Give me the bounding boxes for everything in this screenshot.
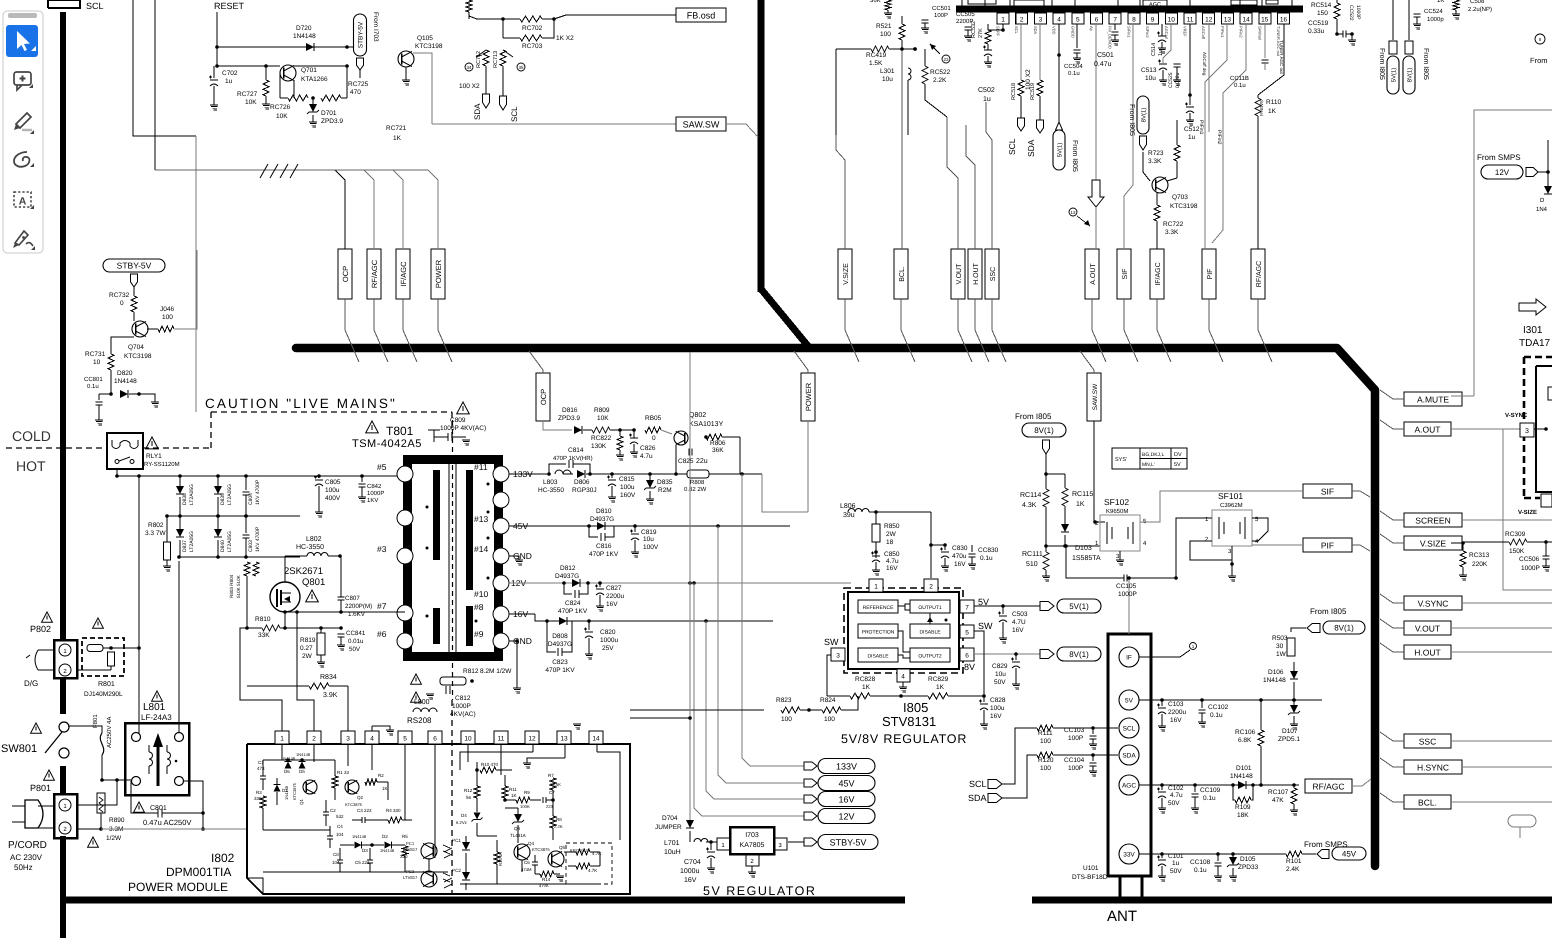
svg-text:1000P: 1000P [1521,565,1540,572]
wire pin16 tuner agc [1258,24,1284,95]
svg-text:6: 6 [1095,17,1099,24]
label SDA flag [968,793,1002,803]
svg-text:150: 150 [1317,10,1328,17]
svg-text:C842: C842 [367,483,382,490]
svg-text:12V: 12V [1495,168,1510,177]
svg-text:V.SIZE: V.SIZE [843,263,850,285]
wire l801 in [77,778,132,805]
svg-text:D6: D6 [284,769,290,774]
svg-text:IF/AGC: IF/AGC [399,261,408,287]
wire Q701 collector [294,65,347,67]
wire bus to OCP lower [529,351,543,373]
svg-text:H.OUT: H.OUT [1414,647,1440,657]
svg-text:TSM-4042A5: TSM-4042A5 [352,438,422,450]
svg-text:474M: 474M [521,867,532,872]
wire ocp to d816 [556,429,572,431]
svg-text:CC830: CC830 [978,547,999,554]
resistor RC115 [1062,488,1093,525]
svg-text:#14: #14 [474,544,488,554]
svg-text:KSA1013Y: KSA1013Y [689,421,724,428]
resistors R803 R804 [229,557,277,628]
transformer pin right mid [493,492,509,508]
diode D838 [176,476,195,516]
wire V.OUT right [1451,627,1552,629]
svg-text:1N4: 1N4 [1536,206,1548,213]
svg-text:10K: 10K [276,113,288,120]
capacitor C825 [676,437,708,465]
sys table [1112,448,1187,469]
resistor R1 [332,760,350,800]
transformer pin #11 [474,462,533,482]
svg-text:18: 18 [886,539,894,546]
capacitor CC505 [956,11,975,41]
svg-text:SCREEN: SCREEN [1415,515,1450,525]
pin6 stub wire [370,640,397,642]
resistor R12 [464,770,480,812]
svg-text:TDA17: TDA17 [1519,338,1551,349]
wire 133V rail2 [612,472,678,476]
svg-text:Q2: Q2 [357,795,364,800]
svg-text:CC524: CC524 [1424,8,1443,15]
capacitor C2 [323,800,344,826]
pin 12 of I201 [1201,13,1215,40]
svg-text:R14: R14 [542,877,551,882]
svg-text:From SMPS: From SMPS [1304,840,1348,849]
svg-text:DV: DV [1174,452,1182,458]
pin 1 of I201 [996,13,1010,37]
svg-text:18K: 18K [1237,812,1249,819]
svg-text:IF/AGC: IF/AGC [1154,262,1162,285]
svg-text:0: 0 [120,300,124,307]
svg-text:I802: I802 [211,851,235,865]
wire stby [347,46,353,48]
svg-text:C702: C702 [222,70,238,77]
svg-text:14: 14 [592,736,600,743]
svg-text:3: 3 [346,736,350,743]
pin 10 of I201 [1164,13,1178,40]
svg-text:470P 1KV(HR): 470P 1KV(HR) [553,455,593,462]
svg-text:4: 4 [901,674,905,681]
net label IF/AGC (upper row) [1150,249,1164,299]
svg-text:1.5K: 1.5K [869,60,883,67]
svg-text:C803: C803 [248,540,254,552]
capacitor C513 [1141,60,1167,85]
svg-text:A: A [19,196,27,208]
dashed isolation line [6,412,452,448]
wire pin13 pif1 [1198,24,1227,249]
wire H.SYNC right [1462,766,1552,768]
stadium small bottom right [1508,815,1536,827]
svg-text:8: 8 [1132,17,1136,24]
toolbar highlight/draw tool [14,113,34,134]
svg-text:SDA: SDA [1026,139,1036,157]
wire pin11 vref [1188,24,1192,97]
svg-text:1000u: 1000u [600,637,618,644]
svg-text:100u: 100u [620,484,635,491]
svg-text:D101: D101 [1236,765,1252,772]
label I802 power module [128,851,235,894]
svg-text:C513: C513 [1141,67,1157,74]
capacitor C804 [243,476,262,516]
wire OCP to bus [345,299,359,362]
svg-text:R11: R11 [509,787,517,792]
capacitor CC11B [1230,24,1269,116]
svg-text:KTA1266: KTA1266 [301,76,328,83]
wire bus to A.OUT [1380,420,1404,429]
svg-text:PC2: PC2 [406,869,415,874]
component R801 (degauss) [82,638,124,698]
svg-text:R9: R9 [524,790,530,795]
transistor Q802 [674,412,724,445]
svg-text:C815: C815 [619,476,635,483]
wire PIF to bus [1209,299,1223,362]
svg-text:1N4148: 1N4148 [284,785,289,800]
svg-text:#5: #5 [377,462,387,472]
svg-text:TUNER AGC out: TUNER AGC out [1279,40,1284,75]
resistor RC727 [237,64,270,109]
net label RF/AGC (upper row) [367,249,381,299]
svg-text:C819: C819 [641,529,657,536]
zener D105 [1227,854,1259,881]
capacitor C4 [327,824,344,848]
svg-text:50V: 50V [349,646,361,653]
svg-text:LT2A05G: LT2A05G [189,484,195,505]
svg-text:45V: 45V [838,778,854,788]
svg-text:PIFin2: PIFin2 [1239,26,1244,38]
label 2SK2671 [284,566,325,588]
svg-text:220K: 220K [1472,561,1488,568]
diode D704 [655,716,694,842]
svg-text:C501: C501 [1097,52,1114,59]
svg-text:V-SIZE: V-SIZE [1518,509,1537,516]
svg-text:3: 3 [1525,428,1529,435]
block PROTECTION [858,624,898,638]
resistor RC111 [1022,546,1050,581]
svg-text:AGCoff: AGCoff [1201,26,1206,40]
wire sf101 pin5 loop [1252,518,1268,541]
svg-text:16V: 16V [838,794,854,804]
svg-text:DISABLE: DISABLE [867,654,889,660]
svg-text:4.7u: 4.7u [640,453,653,460]
resistor R101 [1286,851,1316,873]
net label SCREEN [1404,513,1462,527]
diode D808 [548,617,572,648]
module pin 4 [365,731,379,744]
svg-text:4.7K: 4.7K [588,868,597,873]
svg-text:100: 100 [781,716,792,723]
svg-text:R7: R7 [548,773,554,778]
resistor RC309 [1463,531,1552,555]
svg-text:R3: R3 [256,790,262,795]
svg-text:Q3: Q3 [514,826,521,831]
pin 7 of I201 [1108,13,1122,49]
svg-text:10K: 10K [245,99,257,106]
svg-text:22u: 22u [696,458,708,465]
net label H.SYNC [1404,760,1462,774]
capacitor CC504 [1064,24,1083,77]
wire d820 gnd [139,394,159,407]
flag STBY-5V left [103,259,165,287]
svg-text:L801: L801 [143,702,166,713]
relay RLY1 [107,433,180,469]
pin 13 of I201 [1220,13,1234,38]
capacitor C501 [1094,24,1119,68]
svg-text:SIFin2: SIFin2 [1145,26,1150,38]
transformer pin #7 [377,601,413,621]
svg-text:C503: C503 [1012,611,1028,618]
svg-text:3: 3 [836,653,840,660]
svg-text:1K: 1K [862,684,871,691]
wire sawsw to bus [726,124,758,137]
svg-text:SW: SW [978,621,993,631]
resistor R13 [494,840,503,884]
wire l806 to pin2 [876,512,933,578]
svg-text:OUTPUT1: OUTPUT1 [918,605,942,611]
pin 2 of I201 [1014,13,1027,35]
svg-text:1u: 1u [1158,50,1164,56]
wire bus to H.OUT [1380,643,1404,652]
wire 5V rail tuner [1139,698,1164,702]
svg-text:C826: C826 [640,445,656,452]
regulator pin1 [869,579,883,592]
wire pin1 down [988,24,1003,30]
svg-text:L701: L701 [664,840,680,847]
svg-text:Q4: Q4 [528,841,535,846]
capacitor C823 [545,621,575,674]
inductor L301 [880,47,917,135]
svg-text:From I805: From I805 [1015,412,1052,421]
pin 14 of I201 [1239,13,1253,38]
wire q802 out down [722,437,740,474]
svg-text:IF: IF [1126,655,1132,662]
net label V.SIZE [1404,536,1462,550]
svg-text:SAWsel: SAWsel [1259,100,1264,116]
wire route b [155,0,335,178]
transistor Q2 [345,780,364,807]
svg-text:4.7u: 4.7u [886,558,899,565]
capacitor C803 [243,514,262,557]
filter SF101 [1205,491,1259,581]
IC I301 dashed outline [1524,357,1552,498]
net label OCP (lower) [536,373,550,421]
svg-text:2SK2671: 2SK2671 [284,566,323,577]
svg-text:1000u: 1000u [680,868,700,875]
label 5V REGULATOR [703,884,816,898]
flag 8V(1) r503 [1307,607,1365,634]
svg-text:BG,DKJ,L: BG,DKJ,L [1142,452,1164,458]
net label PIF (upper row) [1202,249,1216,299]
svg-text:C512: C512 [1184,126,1200,133]
svg-text:CC501: CC501 [932,5,951,12]
svg-text:R723: R723 [1148,150,1164,157]
hollow arrow down [1069,180,1104,249]
svg-text:PIFin2: PIFin2 [1216,130,1222,145]
resistor RC532 [971,21,1005,67]
capacitor C809 [428,430,470,445]
svg-text:L803: L803 [543,479,558,486]
svg-text:1: 1 [1001,17,1005,24]
net label SIF (upper row) [1117,249,1131,299]
block DISABLE R [910,624,950,638]
node d820 left [109,392,113,396]
svg-text:R823: R823 [776,697,792,704]
svg-text:0.022u: 0.022u [1175,72,1181,88]
wire pin3 left [827,655,831,696]
svg-text:25V: 25V [602,645,614,652]
svg-text:45V: 45V [1342,849,1357,858]
svg-text:8V(1): 8V(1) [1407,68,1414,83]
wire 16V to pill [706,621,804,799]
svg-text:D4937G: D4937G [590,516,614,523]
net label H.OUT [1404,645,1451,659]
wire q704 emitter [111,337,134,354]
wire V.SYNC right [1462,602,1552,604]
wire stby vertical [689,352,691,718]
tuner U101 box [1108,634,1151,898]
svg-text:DPM001TIA: DPM001TIA [166,865,231,879]
wire IF out [1139,643,1197,658]
transformer pin #13 [474,514,528,534]
svg-text:#9: #9 [474,629,484,639]
svg-text:SCL: SCL [1007,138,1017,155]
plug symbol [12,800,54,828]
resistor RC703 [503,19,554,50]
resistor RC522 [922,49,951,117]
wire H.OUT up [966,125,975,249]
svg-text:HC-3550: HC-3550 [296,544,324,551]
svg-text:SDA: SDA [473,103,482,120]
svg-text:From I703: From I703 [372,12,379,42]
phototransistor PC2 left [403,869,450,887]
svg-text:D837: D837 [182,540,188,552]
svg-text:100P: 100P [1068,765,1083,772]
svg-text:100P: 100P [1068,735,1083,742]
svg-text:AC 230V: AC 230V [10,853,43,862]
svg-text:From I805: From I805 [1310,607,1347,616]
tuner pin SCL [1119,718,1139,738]
svg-text:473: 473 [257,766,265,771]
tuner pin IF [1119,647,1139,667]
transistor Q5 [548,845,589,867]
svg-text:C816: C816 [596,543,612,550]
svg-text:1: 1 [874,584,878,591]
svg-text:RC115: RC115 [1072,491,1093,498]
svg-text:0.33u: 0.33u [1308,28,1325,35]
svg-text:5V(1): 5V(1) [1391,68,1398,83]
toolbar sign tool [13,231,35,250]
wire r890 to module [0,0,1,1]
svg-text:1000P 4KV(AC): 1000P 4KV(AC) [440,425,486,432]
svg-text:Q1: Q1 [299,798,304,805]
svg-text:1u: 1u [225,78,233,85]
svg-text:RC722: RC722 [1163,221,1184,228]
power flag 12V [804,809,875,824]
net label A.MUTE [1404,392,1462,406]
svg-text:L802: L802 [306,536,322,543]
svg-text:R4 330: R4 330 [386,808,401,813]
resistor R834 [247,628,348,744]
svg-text:C825: C825 [678,458,694,465]
net label SIF (left of bus) [1303,484,1370,498]
wire module pin1 up [240,626,282,744]
svg-text:STBY-5V: STBY-5V [117,260,152,270]
svg-text:SIF: SIF [1321,486,1334,496]
svg-text:RC713: RC713 [493,51,499,68]
capacitor CC525 [1168,64,1181,88]
wire V.SIZE up [836,135,845,249]
node rc702 left [501,17,505,38]
svg-text:D808: D808 [552,633,568,640]
svg-text:1K: 1K [441,0,450,2]
svg-text:V.SIZE: V.SIZE [1420,538,1446,548]
flag SDA (ic) [1026,120,1044,157]
wire OCP lower out [543,421,556,430]
wire A.OUT right [1450,429,1552,590]
wire from1805 8v [1408,0,1410,40]
svg-text:SSC: SSC [990,267,997,281]
pin 5 of I201 [1070,13,1084,38]
wire pin8 sif [1124,24,1133,249]
resistor RC829 [901,676,984,699]
svg-text:H.OUT: H.OUT [973,262,980,285]
svg-text:16V: 16V [990,713,1002,720]
wire #7 rail [283,610,405,614]
wire V.SIZE to bus [845,299,859,362]
svg-text:R802: R802 [148,522,164,529]
node fbosd [552,17,556,21]
pin 3 of I201 [1033,13,1047,35]
wire RF/AGC up [335,170,374,249]
resistor R2 [365,773,388,800]
capacitor C827 [595,583,624,611]
svg-text:0.82 2W: 0.82 2W [684,486,707,493]
svg-text:0.47u: 0.47u [1094,61,1112,68]
svg-text:D720: D720 [296,25,312,32]
svg-text:6: 6 [965,653,969,660]
svg-text:4: 4 [1057,17,1061,24]
svg-text:CC103: CC103 [1064,727,1085,734]
svg-text:RC106: RC106 [1235,729,1256,736]
svg-text:2.4K: 2.4K [1286,866,1300,873]
diode D839 [214,476,233,516]
capacitor C805 [314,474,341,517]
svg-text:R109: R109 [1235,804,1251,811]
diode D106 [1263,662,1298,700]
svg-text:D835: D835 [657,479,673,486]
capacitor C801 [131,781,203,827]
svg-text:RESET: RESET [214,1,245,11]
diode D837 [176,514,195,557]
resistor R110 [1255,95,1281,249]
wire module to r823 [630,708,811,712]
wire 5V out [974,604,1040,608]
svg-text:10: 10 [1168,17,1176,24]
svg-text:RC514: RC514 [1311,2,1332,9]
label COLD [12,428,51,444]
resistor R806 [687,434,740,454]
resistor RC114 [1020,474,1049,548]
svg-text:RC727: RC727 [237,91,258,98]
wire pin4 to r824 rail [900,696,902,711]
net label RF/AGC (tuner) [1305,779,1352,793]
net label FB.osd [676,8,726,22]
svg-text:510: 510 [1026,561,1038,568]
connector P801 [54,794,77,838]
net label A.OUT (upper row) [1085,249,1099,299]
svg-text:SDA: SDA [968,793,987,803]
transformer pin #9 [474,629,532,649]
transformer T801 frame [403,455,503,661]
